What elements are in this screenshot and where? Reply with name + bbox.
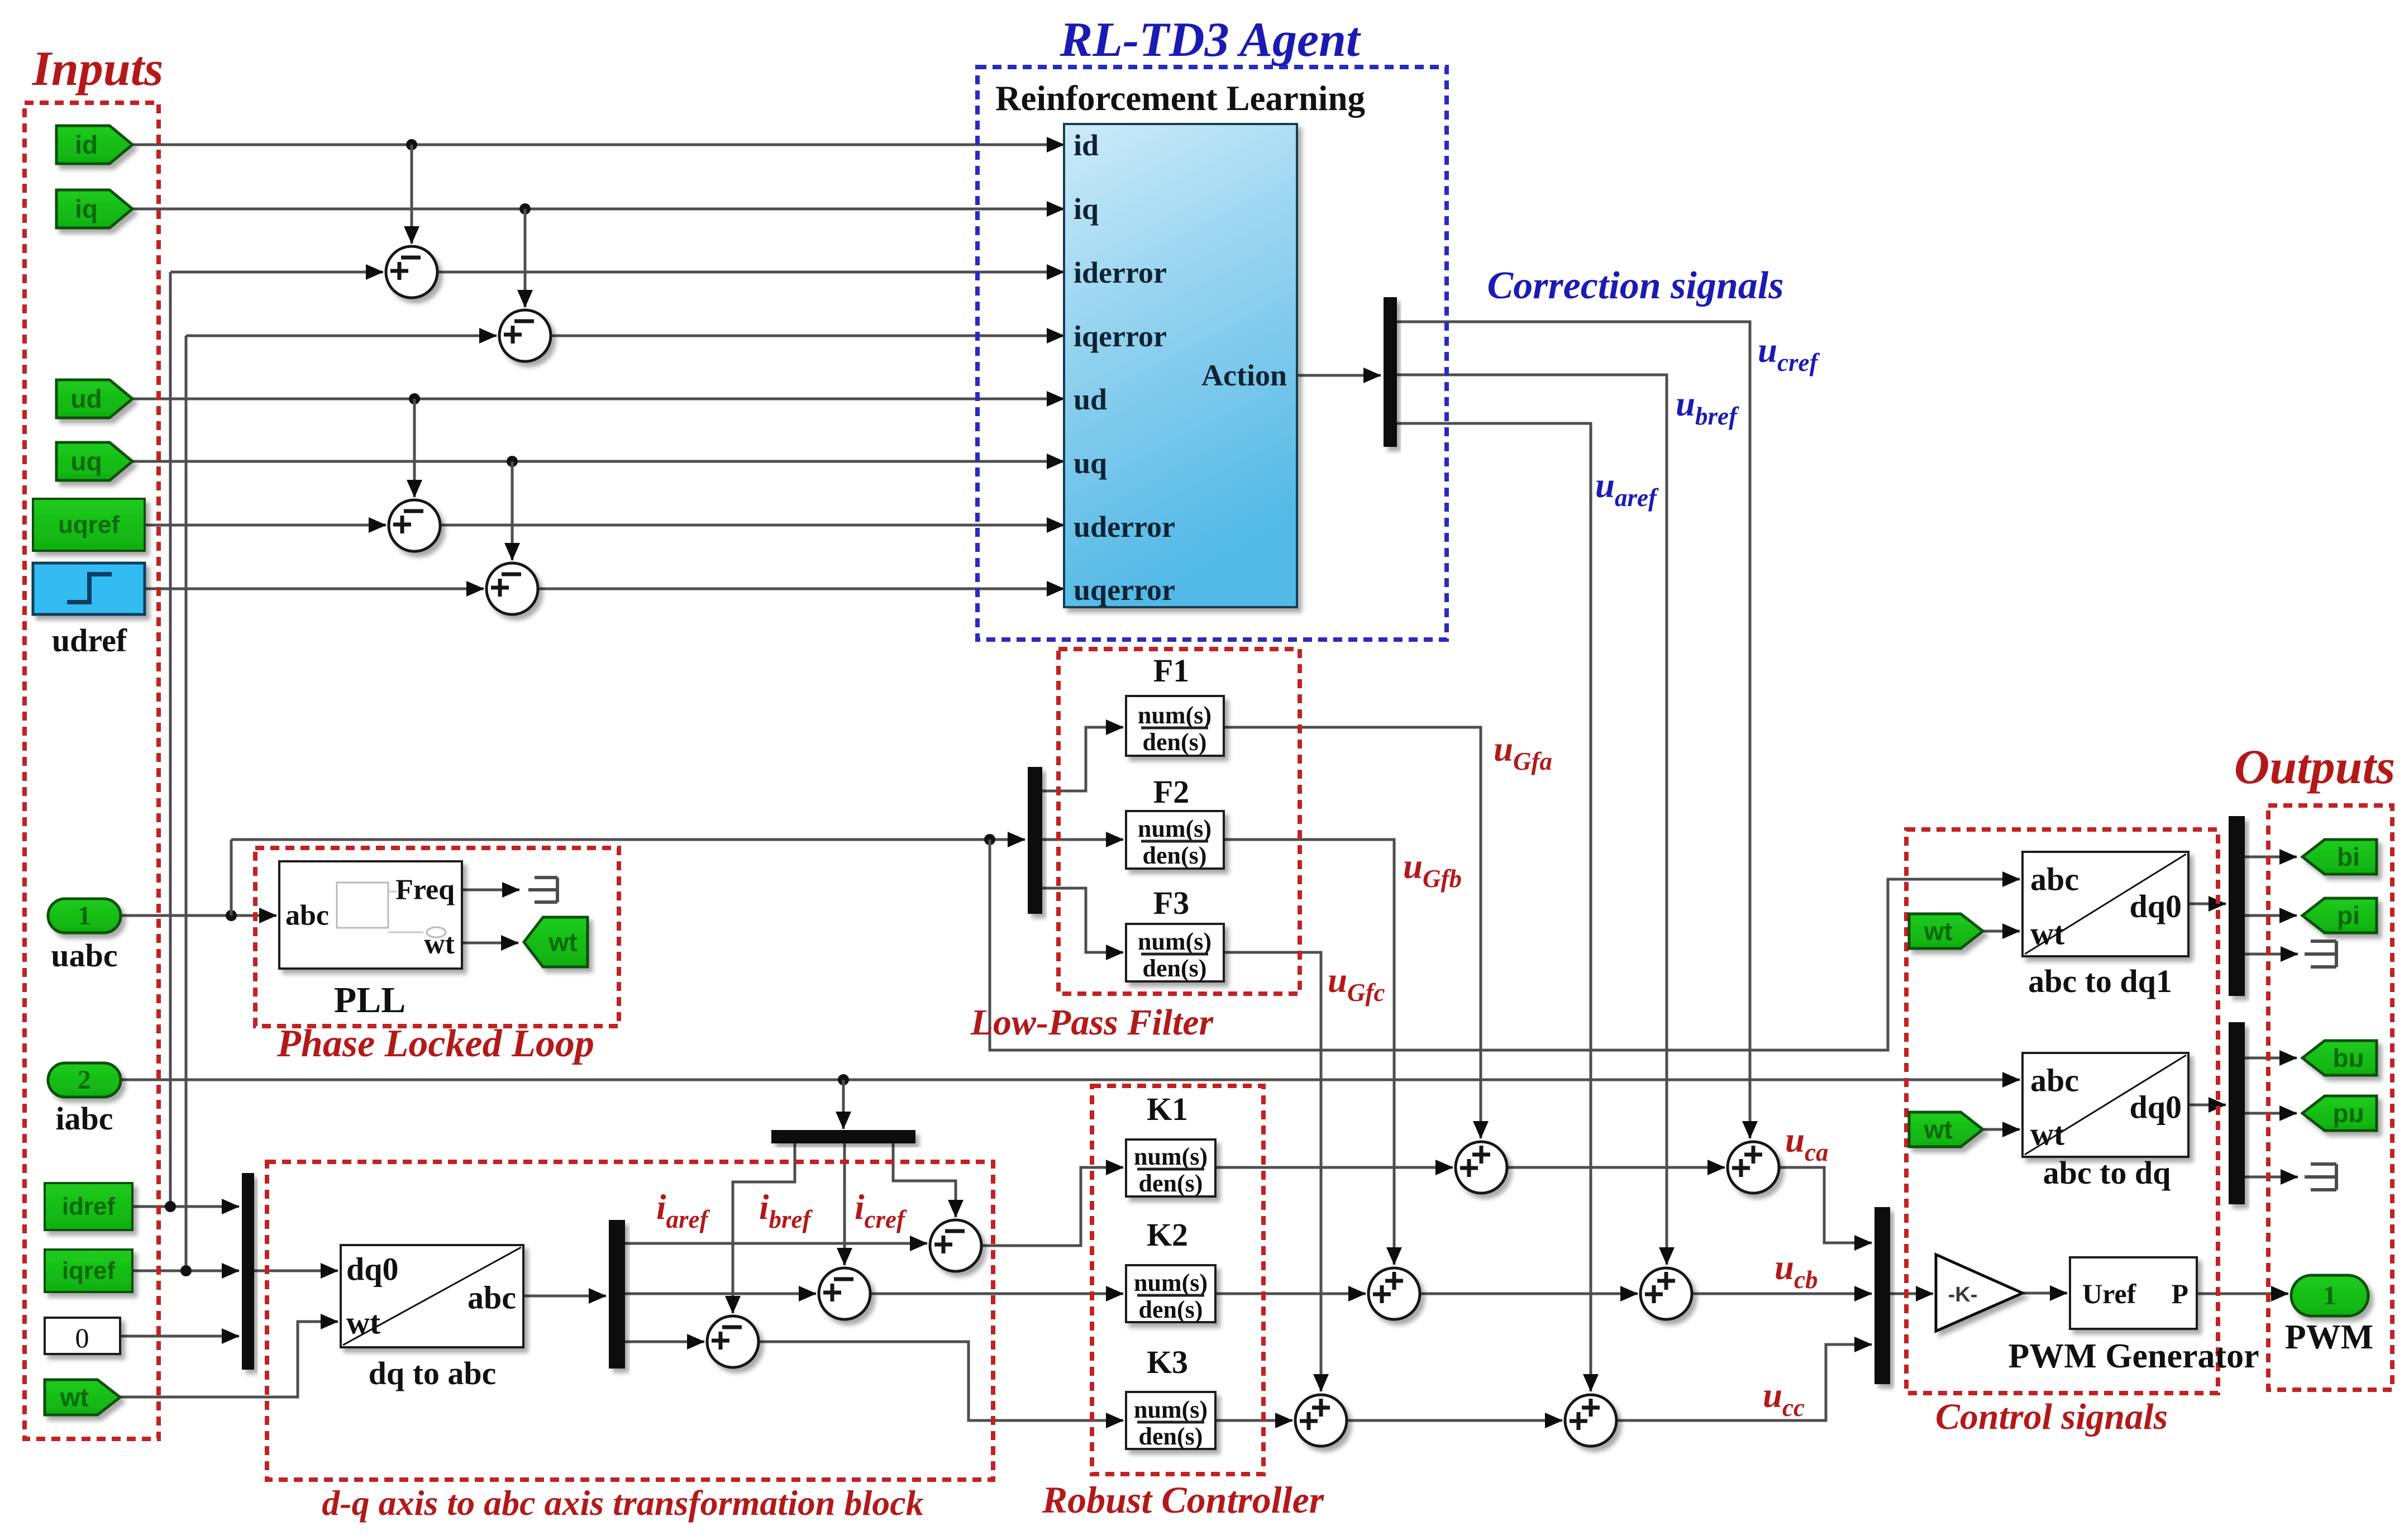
svg-text:K1: K1	[1147, 1091, 1188, 1127]
svg-text:den(s): den(s)	[1143, 842, 1207, 869]
svg-text:id: id	[1074, 128, 1099, 162]
svg-text:den(s): den(s)	[1139, 1423, 1203, 1450]
svg-text:uabc: uabc	[51, 937, 117, 974]
svg-text:Reinforcement Learning: Reinforcement Learning	[995, 79, 1365, 118]
svg-text:PWM: PWM	[2285, 1318, 2373, 1356]
svg-text:den(s): den(s)	[1139, 1170, 1203, 1197]
svg-text:d-q axis to abc axis transform: d-q axis to abc axis transformation bloc…	[322, 1483, 923, 1523]
svg-text:num(s): num(s)	[1134, 1396, 1208, 1423]
svg-text:1: 1	[78, 901, 91, 931]
svg-text:den(s): den(s)	[1139, 1296, 1203, 1323]
svg-text:Action: Action	[1201, 359, 1287, 392]
svg-text:num(s): num(s)	[1134, 1143, 1208, 1170]
svg-text:Robust Controller: Robust Controller	[1042, 1479, 1324, 1521]
svg-text:wt: wt	[60, 1383, 89, 1412]
svg-text:F2: F2	[1153, 774, 1189, 810]
svg-text:0: 0	[75, 1322, 89, 1353]
svg-text:num(s): num(s)	[1134, 1269, 1208, 1296]
svg-text:ud: ud	[1074, 383, 1107, 416]
svg-text:Uref: Uref	[2082, 1278, 2137, 1309]
svg-text:Low-Pass Filter: Low-Pass Filter	[970, 1002, 1214, 1043]
svg-text:ud: ud	[70, 384, 102, 413]
svg-text:abc: abc	[285, 900, 329, 932]
svg-text:dq0: dq0	[2129, 888, 2182, 924]
svg-text:iq: iq	[1074, 192, 1099, 226]
svg-text:ud: ud	[2333, 1043, 2364, 1072]
svg-text:P: P	[2171, 1278, 2188, 1309]
svg-text:wt: wt	[1924, 917, 1953, 946]
svg-text:F1: F1	[1153, 652, 1189, 689]
svg-text:1: 1	[2323, 1281, 2336, 1310]
svg-text:Phase Locked Loop: Phase Locked Loop	[276, 1022, 594, 1065]
svg-text:Outputs: Outputs	[2234, 740, 2396, 794]
svg-text:iderror: iderror	[1074, 256, 1167, 289]
svg-text:Control signals: Control signals	[1935, 1396, 2168, 1437]
svg-text:PLL: PLL	[334, 980, 406, 1021]
svg-text:wt: wt	[2030, 916, 2065, 952]
svg-text:K3: K3	[1147, 1344, 1188, 1380]
svg-text:uq: uq	[70, 447, 102, 476]
svg-text:iqref: iqref	[62, 1257, 116, 1285]
svg-text:num(s): num(s)	[1138, 815, 1211, 842]
svg-text:dq0: dq0	[346, 1251, 399, 1288]
svg-text:Inputs: Inputs	[32, 42, 164, 96]
svg-text:K2: K2	[1147, 1217, 1188, 1253]
svg-text:abc: abc	[468, 1280, 516, 1316]
svg-text:abc to dq: abc to dq	[2043, 1155, 2171, 1191]
svg-text:udref: udref	[52, 622, 127, 659]
svg-text:iq: iq	[2337, 901, 2360, 930]
svg-text:RL-TD3 Agent: RL-TD3 Agent	[1060, 13, 1361, 67]
svg-text:wt: wt	[1924, 1115, 1953, 1144]
svg-text:wt: wt	[2030, 1116, 2065, 1152]
svg-text:uderror: uderror	[1074, 510, 1175, 543]
svg-text:id: id	[75, 130, 98, 159]
svg-text:iqerror: iqerror	[1074, 320, 1167, 353]
svg-text:iq: iq	[75, 194, 98, 223]
svg-text:den(s): den(s)	[1143, 955, 1207, 982]
svg-text:iabc: iabc	[55, 1100, 113, 1137]
svg-text:F3: F3	[1153, 885, 1189, 921]
svg-text:num(s): num(s)	[1138, 928, 1211, 955]
svg-text:uqref: uqref	[58, 511, 120, 538]
svg-text:idref: idref	[62, 1193, 116, 1220]
svg-text:dq0: dq0	[2129, 1089, 2182, 1126]
svg-text:PWM Generator: PWM Generator	[2008, 1337, 2259, 1375]
svg-text:abc to dq1: abc to dq1	[2028, 963, 2172, 999]
svg-text:den(s): den(s)	[1143, 728, 1207, 756]
svg-text:wt: wt	[548, 928, 578, 957]
svg-text:dq to abc: dq to abc	[369, 1355, 497, 1391]
svg-text:wt: wt	[424, 928, 455, 960]
svg-text:wt: wt	[346, 1305, 381, 1341]
svg-text:id: id	[2337, 842, 2360, 871]
svg-text:abc: abc	[2030, 861, 2079, 898]
svg-text:uq: uq	[2333, 1099, 2364, 1128]
svg-text:abc: abc	[2030, 1062, 2079, 1099]
svg-text:Correction signals: Correction signals	[1487, 264, 1784, 307]
svg-text:2: 2	[78, 1065, 91, 1095]
svg-text:uqerror: uqerror	[1074, 573, 1175, 607]
svg-text:-K-: -K-	[1948, 1283, 1978, 1307]
svg-text:num(s): num(s)	[1138, 702, 1211, 729]
svg-text:Freq: Freq	[395, 874, 455, 906]
svg-text:uq: uq	[1074, 446, 1107, 480]
